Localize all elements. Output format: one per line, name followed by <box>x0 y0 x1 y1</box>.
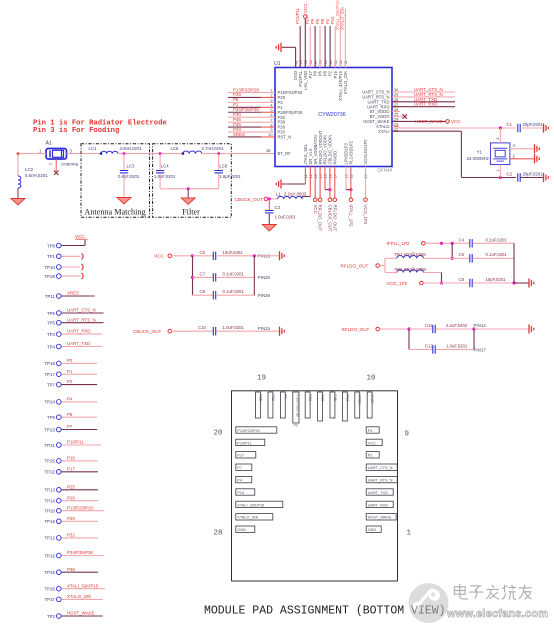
IC U1 pin 4 P1 / net P1 <box>228 102 283 110</box>
test point TP3 net UART_RXD <box>47 329 102 337</box>
capacitor C9 0.1uF <box>193 289 271 299</box>
svg-text:P13/P23/P29: P13/P23/P29 <box>67 505 93 510</box>
svg-text:XTALO_32K: XTALO_32K <box>343 71 348 94</box>
pad index 1 <box>407 530 412 538</box>
IC U1 pin 34 P2 name <box>328 59 333 76</box>
wire net HOST_WAKE to VCC <box>392 119 461 124</box>
svg-text:VCC: VCC <box>75 234 85 239</box>
svg-text:LC6: LC6 <box>219 163 227 168</box>
svg-text:1: 1 <box>39 149 42 154</box>
svg-text:C2: C2 <box>507 172 513 177</box>
IC U1 CYW20736 body <box>274 61 392 173</box>
svg-text:P0: P0 <box>67 358 73 363</box>
svg-text:LC1: LC1 <box>89 146 97 151</box>
svg-text:1.0uF,0201: 1.0uF,0201 <box>223 325 245 330</box>
ferrite bead FB1 600@100M <box>385 252 452 258</box>
module pad 22 P17 <box>236 452 256 458</box>
test point TP23 net P7 <box>45 424 98 432</box>
svg-text:P7: P7 <box>67 424 73 429</box>
capacitor C12 1.0uF <box>409 329 486 354</box>
module pad 10 GND <box>367 392 374 418</box>
module pad 4 UART_TXD <box>366 489 393 495</box>
ground below C3 <box>262 225 276 232</box>
svg-text:VCO_1P2: VCO_1P2 <box>363 205 368 225</box>
no-connect X on BT_VDDO pin 25 <box>392 114 407 118</box>
svg-text:HOST_WAKE: HOST_WAKE <box>67 611 94 616</box>
svg-text:XTALI_32K/P15: XTALI_32K/P15 <box>67 583 99 588</box>
ground right of C2 <box>544 173 549 182</box>
svg-text:UART_RXD: UART_RXD <box>368 503 389 507</box>
wire into filter / node LC4 <box>152 152 183 155</box>
svg-text:3: 3 <box>70 149 73 154</box>
power VCC at pin 39 <box>303 3 308 68</box>
svg-text:2: 2 <box>513 153 516 158</box>
IC U1 pin 1 P15/P23/P26 / net P13/P23/P29 <box>228 87 303 95</box>
svg-text:TP4: TP4 <box>47 344 56 349</box>
svg-text:P25: P25 <box>67 484 75 489</box>
port IFPLL_1P2 pin 19 <box>349 198 354 227</box>
wire net UART_RTS_N <box>392 92 455 97</box>
wire net UART_CTS_N <box>392 87 455 92</box>
svg-text:RFLDO_OUT: RFLDO_OUT <box>332 205 337 232</box>
test point TP22 net P17 <box>45 466 98 474</box>
module pad 24 P4 <box>236 476 252 482</box>
svg-text:P4: P4 <box>67 397 73 402</box>
wire antenna pin1 to LC2 <box>17 152 47 176</box>
capacitor C3 1.0uF <box>265 199 296 224</box>
module pad 15 P26 <box>305 392 312 418</box>
svg-text:P14: P14 <box>237 491 244 495</box>
wire net XTALI <box>392 131 516 179</box>
svg-text:UART_RTS_N: UART_RTS_N <box>368 479 393 483</box>
IC U1 pin 20 VCOLDO1P2 name <box>363 139 368 179</box>
svg-text:20: 20 <box>214 430 224 438</box>
capacitor C6 0.1uF <box>452 252 514 262</box>
wire net P6 pin 36 <box>315 18 320 67</box>
svg-text:1: 1 <box>407 530 412 538</box>
module pad 9 P4 <box>366 427 379 433</box>
crystal Y1 24.000MHz <box>467 128 510 178</box>
IC U1 pin 26 BT_VDDO name <box>370 107 399 114</box>
svg-text:TP2: TP2 <box>47 614 56 619</box>
capacitor C10 1.0uF <box>198 325 279 335</box>
svg-text:GND: GND <box>237 528 246 532</box>
svg-text:UART_TXD: UART_TXD <box>368 491 388 495</box>
svg-text:2.2uH,0603: 2.2uH,0603 <box>284 191 307 196</box>
wire net XTALO <box>392 126 516 129</box>
antenna A1 pin2 no-connect <box>48 159 59 175</box>
module pad Pb mark <box>294 424 299 428</box>
ground right bank <box>529 278 534 287</box>
svg-text:4: 4 <box>513 143 516 148</box>
svg-text:C12: C12 <box>425 343 433 348</box>
module pad 12 P33 <box>342 392 349 421</box>
IC U1 pin 29 UART_RTS_N name <box>362 92 398 99</box>
svg-text:UART_TXD: UART_TXD <box>67 341 90 346</box>
svg-text:PIN15: PIN15 <box>258 326 271 331</box>
svg-text:TP17: TP17 <box>45 372 56 377</box>
svg-text:LC4: LC4 <box>161 163 169 168</box>
wire net P17 pin 38 <box>305 16 310 68</box>
module outline (bottom view) <box>232 391 398 581</box>
IC U1 pin 23 XTALO name <box>376 122 398 129</box>
svg-text:0.1uF,0201: 0.1uF,0201 <box>486 237 508 242</box>
svg-text:P17: P17 <box>237 454 244 458</box>
svg-text:20pF,0201: 20pF,0201 <box>523 122 544 127</box>
svg-text:2.2uF,0402: 2.2uF,0402 <box>446 323 468 328</box>
svg-text:10pF,0201: 10pF,0201 <box>486 277 507 282</box>
wire pins 15+16 merge <box>325 167 332 199</box>
test point TP2 net HOST_WAKE <box>47 611 103 619</box>
svg-text:24.000MHz: 24.000MHz <box>467 156 489 161</box>
svg-text:RFLDO_OUT: RFLDO_OUT <box>342 327 370 332</box>
svg-text:TP16: TP16 <box>45 553 56 558</box>
svg-text:0.8pF,0201: 0.8pF,0201 <box>118 174 140 179</box>
svg-text:P7: P7 <box>237 466 242 470</box>
svg-text:TP24: TP24 <box>45 400 56 405</box>
ferrite bead FB2 600@100M <box>385 267 443 285</box>
module pad 2 HOST_WAKE <box>366 514 396 520</box>
wire right bank rail <box>514 243 529 283</box>
svg-text:XRES: XRES <box>233 132 245 137</box>
svg-text:9: 9 <box>405 431 410 439</box>
test point TP13 net P25 <box>45 484 98 492</box>
svg-text:RST_N: RST_N <box>278 135 292 140</box>
module pad 21 P10/P11 <box>236 439 265 445</box>
test point TP25 net P16 <box>45 456 98 464</box>
svg-text:XRES: XRES <box>67 291 79 296</box>
svg-text:P26: P26 <box>67 495 75 500</box>
svg-text:P26: P26 <box>308 394 312 401</box>
test point TP7 net P2 <box>47 379 97 387</box>
wire LC1 to LC3 node <box>118 152 152 155</box>
svg-text:RFLDO_OUT: RFLDO_OUT <box>341 264 369 269</box>
svg-text:TP12: TP12 <box>45 536 56 541</box>
svg-text:2: 2 <box>48 162 53 165</box>
svg-text:LC3: LC3 <box>127 163 135 168</box>
port CBUCK_OUT mid <box>133 329 213 334</box>
svg-text:TP6: TP6 <box>47 311 56 316</box>
svg-text:VCC: VCC <box>451 119 461 124</box>
ground below filter <box>181 189 195 205</box>
wire VCC cap bank left rail <box>191 256 194 295</box>
ground below IC left <box>276 179 281 188</box>
svg-text:TP5: TP5 <box>47 321 56 326</box>
wire net UART_TXD <box>392 97 455 102</box>
svg-text:UART_CTS_N: UART_CTS_N <box>368 466 393 470</box>
svg-text:0.1uF,0201: 0.1uF,0201 <box>223 271 245 276</box>
svg-text:C6: C6 <box>459 252 465 257</box>
svg-text:PIN14: PIN14 <box>474 323 487 328</box>
test point TP8 to VCC <box>47 243 85 248</box>
antenna A1 <box>39 141 79 167</box>
IC U1 pin 38 P17 name <box>308 60 313 78</box>
svg-text:P29: P29 <box>67 516 75 521</box>
svg-text:C7: C7 <box>200 271 206 276</box>
svg-text:3.9nH,0201: 3.9nH,0201 <box>120 146 143 151</box>
module pad 3 UART_RXD <box>366 501 393 507</box>
IC U1 pin 39 LHL_VDD name <box>303 60 308 90</box>
ground below LC3 <box>117 198 131 205</box>
svg-text:TP21: TP21 <box>45 443 56 448</box>
wire net P10/P11 pin 40 <box>295 8 300 68</box>
IC U1 pin 17 PAVDD name <box>333 151 338 179</box>
svg-text:P25: P25 <box>333 394 337 401</box>
IC U1 pin 22 XTALI name <box>378 126 398 133</box>
ground right of C1 <box>544 123 549 132</box>
pad index 10 <box>367 375 377 383</box>
wire net XTALO_32K pin 31 <box>340 7 345 68</box>
svg-text:C4: C4 <box>459 237 465 242</box>
IC U1 pin 19 PLLVDD1P2 name <box>349 140 354 178</box>
svg-text:TP8: TP8 <box>47 243 56 248</box>
IC U1 pin 36 P6 name <box>318 60 323 76</box>
svg-text:www.elecfans.com: www.elecfans.com <box>446 608 548 620</box>
svg-text:C11: C11 <box>425 323 433 328</box>
svg-text:28: 28 <box>214 530 223 538</box>
svg-text:L1: L1 <box>276 191 281 196</box>
svg-text:TP3: TP3 <box>47 332 56 337</box>
watermark text dianzifashaoyou <box>454 584 532 600</box>
svg-text:TP10: TP10 <box>45 265 56 270</box>
IC U1 pin 3 P3 / net P6 <box>228 97 283 105</box>
test point TP20 net P13/P23/P29 <box>45 505 105 513</box>
module pad 27 XTALO_32K <box>236 514 273 520</box>
svg-text:C8: C8 <box>459 277 465 282</box>
port RFLDO_OUT upper <box>341 258 386 272</box>
svg-text:UART_CTS_N: UART_CTS_N <box>67 308 96 313</box>
IC U1 pin 30 UART_CTS_N name <box>362 87 399 94</box>
port CBUCK_OUT <box>235 197 278 202</box>
svg-text:XRES: XRES <box>358 394 362 405</box>
svg-text:XTALI: XTALI <box>378 129 389 134</box>
svg-text:PIN25: PIN25 <box>258 275 271 280</box>
module pad 14 P32 <box>318 392 325 421</box>
wire net P2 pin 34 <box>325 18 330 67</box>
test point TP21 net P10/P11 <box>45 440 102 448</box>
IC U1 pin 12 SR_VLX name <box>308 148 313 178</box>
svg-text:C5: C5 <box>200 250 206 255</box>
svg-text:CBUCK_OUT: CBUCK_OUT <box>328 205 333 232</box>
svg-text:5.6nH,0201: 5.6nH,0201 <box>25 173 48 178</box>
svg-text:1.0uF,0201: 1.0uF,0201 <box>275 215 297 220</box>
pad index 28 <box>214 530 223 538</box>
IC U1 pin 16 BT_RF name <box>278 151 292 156</box>
wire IFPLL node to C6 row <box>451 243 454 260</box>
svg-text:1.8pF,0201: 1.8pF,0201 <box>219 174 241 179</box>
svg-text:P16: P16 <box>67 456 75 461</box>
svg-text:TP27: TP27 <box>45 597 56 602</box>
capacitor C11 2.2uF <box>409 323 529 333</box>
module pad 20 P13/P23/P29 <box>236 427 277 433</box>
test point TP11 net XRES <box>45 291 95 299</box>
svg-text:P2: P2 <box>368 454 373 458</box>
inductor LC2 5.6nH <box>18 167 48 188</box>
svg-text:TP15: TP15 <box>45 570 56 575</box>
svg-text:TP22: TP22 <box>45 470 56 475</box>
module pad 8 VCC <box>366 439 382 445</box>
svg-text:P32: P32 <box>321 394 325 401</box>
svg-text:P10/P11: P10/P11 <box>295 8 300 24</box>
test point TP14 net P26 <box>45 495 98 503</box>
module pad 25 P14 <box>236 489 255 495</box>
wire crystal pin 2 <box>510 153 534 159</box>
wire GND pin 41 <box>282 47 296 67</box>
test point TP18 net P0 <box>45 358 98 366</box>
svg-text:Antenna Matching: Antenna Matching <box>84 208 145 217</box>
capacitor C4 0.1uF <box>459 237 515 247</box>
watermark text www.elecfans.com <box>446 608 548 620</box>
module pad 13 P25 <box>330 392 337 418</box>
IC U1 pin 28 UART_TXD name <box>367 97 398 104</box>
svg-text:GND: GND <box>370 394 374 403</box>
IC U1 pin 41 GND name <box>293 60 298 80</box>
test point TP5 net UART_RTS_N <box>47 317 104 325</box>
svg-text:VCO_1P2: VCO_1P2 <box>387 281 408 286</box>
svg-text:PIN39: PIN39 <box>258 293 271 298</box>
module pad 5 UART_RTS_N <box>366 476 397 482</box>
svg-text:P16: P16 <box>271 394 275 401</box>
ground right of crystal pin 4 <box>535 144 540 153</box>
wire net P8 pin 35 <box>320 18 325 67</box>
IC U1 pin 9 P33 / net P33 <box>228 127 286 135</box>
svg-text:Pin 3 is For Fooding: Pin 3 is For Fooding <box>33 127 119 135</box>
test point TP26 net XTALI_32K/P15 <box>45 583 106 591</box>
test point TP4 net UART_TXD <box>47 341 102 349</box>
svg-text:XTALO_32K: XTALO_32K <box>67 594 91 599</box>
port VCC pin 13 <box>313 167 318 214</box>
IC U1 pin 11 JTAG_SEL name <box>303 143 308 178</box>
port VCO_1P2 <box>387 281 470 286</box>
svg-text:P1: P1 <box>283 394 287 399</box>
port VCC mid <box>154 254 194 259</box>
svg-text:VCC: VCC <box>303 3 308 13</box>
wire BT_VDDO pin 26 <box>392 111 400 113</box>
wire filter bottom rail <box>160 187 219 190</box>
svg-text:CYW20736: CYW20736 <box>318 112 346 118</box>
svg-text:P1: P1 <box>67 369 73 374</box>
port RFLDO_OUT lower <box>342 327 411 332</box>
module pad 26 XTALI_32K/P15 <box>236 501 283 507</box>
IC U1 pin 24 HOST_WAKE name <box>363 117 399 124</box>
svg-text:LC2: LC2 <box>25 167 34 172</box>
IC U1 pin 16 CBLDO_VDDIN name <box>328 135 333 179</box>
capacitor LC6 1.8pF <box>215 154 242 189</box>
svg-text:C10: C10 <box>198 325 206 330</box>
svg-text:P13/P23/P29: P13/P23/P29 <box>237 429 259 433</box>
IC U1 pin 13 SR_VDDBAT3V name <box>313 134 318 178</box>
svg-text:Filter: Filter <box>182 208 200 217</box>
svg-text:2.7nH,0201: 2.7nH,0201 <box>202 146 225 151</box>
svg-text:TP9: TP9 <box>47 415 56 420</box>
svg-text:HOST_WAKE: HOST_WAKE <box>415 119 442 124</box>
svg-text:TP23: TP23 <box>45 427 56 432</box>
IC U1 pin 27 UART_RXD name <box>367 102 399 109</box>
svg-text:TP26: TP26 <box>45 587 56 592</box>
IC U1 pin 8 P26 / net P35 <box>228 122 286 130</box>
IC U1 pin 31 XTALO_32K name <box>343 60 348 94</box>
test point TP12 net P32 <box>45 533 98 541</box>
port CBUCK_OUT pin 16 <box>328 198 333 232</box>
capacitor C5 10uF <box>193 250 280 260</box>
svg-text:PAVDD: PAVDD <box>333 151 338 165</box>
port RFLDO_OUT pin 14 <box>318 167 323 232</box>
caption MODULE PAD ASSIGNMENT <box>204 605 446 618</box>
test point TP24 net P4 <box>45 397 98 405</box>
pad index 20 <box>214 430 224 438</box>
wire crystal pin 4 <box>510 143 534 149</box>
wire pins 18+19 merge <box>346 167 353 199</box>
test point TP27 net XTALO_32K <box>45 594 103 602</box>
wire net P16 pin 33 <box>330 16 335 68</box>
svg-text:VCC: VCC <box>368 441 376 445</box>
module pad 19 P29 <box>256 392 263 418</box>
svg-text:P4: P4 <box>368 429 373 433</box>
ground at IC top left <box>276 43 281 52</box>
svg-text:0.1uF,0201: 0.1uF,0201 <box>223 289 245 294</box>
svg-text:TP18: TP18 <box>45 361 56 366</box>
inductor LC5 2.7nH <box>171 146 225 155</box>
module pad 1 GND <box>366 526 381 532</box>
IC U1 pin 37 P9 name <box>313 60 318 76</box>
svg-text:P2: P2 <box>67 379 73 384</box>
IC U1 top pin stubs <box>296 62 346 68</box>
ground right of C10 <box>280 327 285 336</box>
wire net XTALI_32K/P15 pin 32 <box>335 0 340 68</box>
ground below LC2 <box>11 188 25 205</box>
svg-text:UART_RTS_N: UART_RTS_N <box>67 317 96 322</box>
svg-text:0.1uF,0201: 0.1uF,0201 <box>486 252 508 257</box>
svg-text:P33: P33 <box>345 394 349 401</box>
module pad 11 XRES <box>355 392 362 418</box>
module pad 17 P1 <box>280 392 287 418</box>
svg-text:P4: P4 <box>237 479 242 483</box>
svg-text:C1: C1 <box>507 122 513 127</box>
svg-text:TP7: TP7 <box>47 382 56 387</box>
svg-text:GND: GND <box>368 528 377 532</box>
svg-text:CBUCK_OUT: CBUCK_OUT <box>235 197 264 202</box>
wire LC5 to LC6 node <box>202 152 232 155</box>
inductor LC1 3.9nH <box>89 146 143 155</box>
wire SR_VLX pin 12 to L1 <box>302 167 310 199</box>
IC U1 pin 32 XTALI_32K/P15 name <box>338 60 343 101</box>
test point TP15 net P38 <box>45 567 98 575</box>
svg-text:10: 10 <box>367 375 377 383</box>
wire net UART_RXD <box>392 102 455 107</box>
IC U1 pin 33 P16 name <box>333 60 338 78</box>
module pad 28 GND <box>236 526 255 532</box>
svg-text:TP14: TP14 <box>45 499 56 504</box>
ground right of crystal pin 2 <box>535 154 540 163</box>
test point TP16 net P34/P35/P38 <box>45 550 105 558</box>
wire net P9 pin 37 <box>310 18 315 67</box>
svg-text:CBUCK_OUT: CBUCK_OUT <box>133 329 162 334</box>
wire cap bank right rail <box>253 256 255 295</box>
svg-text:Pb: Pb <box>294 424 299 428</box>
svg-text:C3: C3 <box>275 205 281 210</box>
test point TP10 <box>45 264 84 270</box>
test point TP9 net P8 <box>47 412 97 420</box>
svg-text:VCOLDO1P2: VCOLDO1P2 <box>363 139 368 165</box>
inductor L1 2.2uH <box>276 191 307 199</box>
port VCO_1P2 pin 20 <box>363 167 368 225</box>
svg-text:P8: P8 <box>67 412 73 417</box>
IC U1 pin 40 P10/P11 name <box>298 59 303 86</box>
svg-text:FB1 600@100M: FB1 600@100M <box>395 252 427 257</box>
svg-text:TP19: TP19 <box>45 519 56 524</box>
test point TP19 net P29 <box>45 516 98 524</box>
module pad 18 P16 <box>268 392 275 418</box>
